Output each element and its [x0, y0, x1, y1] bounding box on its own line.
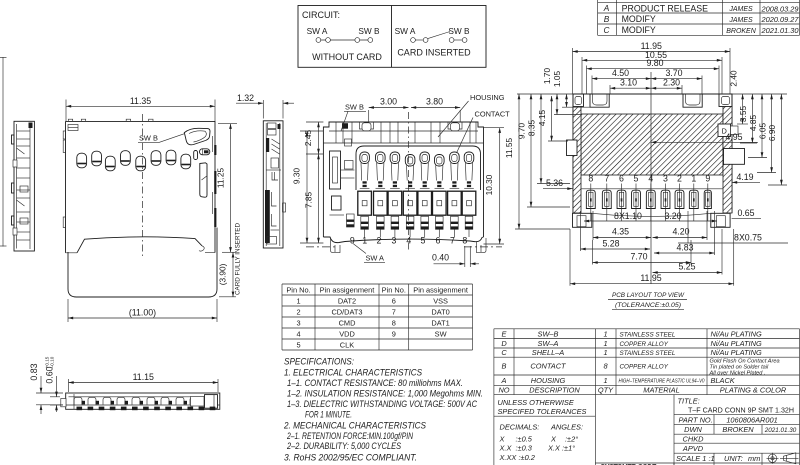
svg-text:4.19: 4.19 — [736, 172, 753, 182]
svg-text:2021.01.30: 2021.01.30 — [761, 26, 800, 35]
label HOUSING with leader — [438, 93, 505, 137]
svg-text:2: 2 — [377, 236, 382, 246]
dimension 5.28 pcb — [580, 211, 582, 251]
svg-text:A: A — [603, 3, 610, 13]
svg-text:CHKD: CHKD — [683, 434, 705, 443]
pcb top corner tab right — [719, 94, 732, 107]
title block frame — [595, 395, 799, 465]
revision row B MODIFY — [604, 14, 800, 24]
svg-text:1.32: 1.32 — [237, 93, 254, 103]
materials row E SW&#8211;B — [502, 329, 762, 338]
svg-text:4: 4 — [296, 329, 300, 338]
svg-text:T–F CARD CONN 9P SMT 1.32: T–F CARD CONN 9P SMT 1.32H — [688, 406, 794, 415]
svg-text:FOR 1 MINUTE.: FOR 1 MINUTE. — [305, 410, 352, 420]
pin table row 1 — [296, 296, 448, 305]
svg-text:PRODUCT RELEASE: PRODUCT RELEASE — [622, 3, 708, 13]
dimension 1.05 pcb left — [566, 94, 568, 107]
tolerance block frame — [494, 395, 674, 465]
far-left side view internal details — [13, 131, 30, 240]
cut-off extension line at image left edge — [0, 57, 7, 247]
dimension 3.10 pcb — [609, 85, 611, 94]
svg-text:CARD FULLY INSERTED: CARD FULLY INSERTED — [235, 223, 242, 296]
svg-text:NO: NO — [498, 385, 509, 394]
svg-text:4: 4 — [648, 174, 653, 184]
svg-text:B: B — [604, 14, 610, 24]
switch contact pin 9 details left side — [330, 139, 355, 227]
materials row D SW&#8211;A — [501, 339, 762, 348]
seating plane dash-dot line — [306, 246, 336, 248]
svg-text:SPECIFED TOLERANCES: SPECIFED TOLERANCES — [498, 407, 587, 416]
dimension (11.00) card width — [68, 299, 217, 322]
svg-text:8X0.75: 8X0.75 — [734, 233, 762, 243]
dimension 11.55 pcb left — [518, 94, 520, 229]
svg-text:D: D — [501, 339, 507, 348]
side view contact bumps — [74, 397, 201, 404]
svg-text:CMD: CMD — [339, 318, 356, 327]
svg-text:3.80: 3.80 — [426, 97, 443, 107]
svg-text:6: 6 — [392, 296, 396, 305]
contact fingers pins 1-8 — [360, 152, 474, 188]
switch contacts closed (without card) — [316, 38, 373, 43]
materials table grid — [494, 329, 800, 395]
svg-text:SCALE 1 :1: SCALE 1 :1 — [676, 454, 715, 463]
dimension 4.50 pcb — [591, 76, 593, 95]
svg-text:7.85: 7.85 — [304, 192, 314, 209]
svg-text:DWN: DWN — [684, 425, 702, 434]
svg-text:STAINLESS STEEL: STAINLESS STEEL — [620, 350, 676, 357]
dimension 11.95 pcb bottom — [570, 229, 734, 286]
left view centerline dashed — [142, 114, 144, 258]
circuit diagram box — [298, 6, 486, 68]
svg-text:7: 7 — [392, 307, 396, 316]
far-left side view top notch — [29, 123, 33, 129]
svg-text:Pin assigenment: Pin assigenment — [413, 285, 468, 294]
pcb right side tab — [724, 149, 745, 165]
svg-text:6.90: 6.90 — [767, 125, 777, 142]
dimension 4.83 pcb — [714, 211, 716, 255]
svg-text:DAT1: DAT1 — [431, 318, 449, 327]
svg-text:3: 3 — [663, 174, 668, 184]
svg-text:PCB LAYOUT TOP VIEW: PCB LAYOUT TOP VIEW — [612, 292, 685, 299]
pin table header row — [286, 285, 468, 294]
dimension 2.45 middle view — [306, 122, 323, 154]
dimension 5.36 pcb — [543, 178, 573, 189]
svg-text:C: C — [501, 348, 507, 357]
svg-text:ANGLES:: ANGLES: — [550, 423, 583, 432]
dimension 11.95 pcb top — [573, 48, 731, 94]
svg-text:2. MECHANICAL CHARACTERISTIC: 2. MECHANICAL CHARACTERISTICS — [283, 421, 426, 431]
svg-text:HOUSING: HOUSING — [531, 376, 566, 385]
middle view contact cradle rounded frame — [356, 146, 481, 190]
svg-text:B: B — [502, 362, 507, 371]
side view right end details — [191, 395, 218, 409]
svg-text:11.15: 11.15 — [133, 372, 154, 382]
svg-text:E: E — [502, 329, 507, 338]
dimension 11.15 side view — [69, 379, 219, 392]
middle view top band dividers — [323, 123, 483, 144]
dimension 0.83 side view — [29, 363, 63, 414]
svg-text:STAINLESS STEEL: STAINLESS STEEL — [620, 331, 676, 338]
svg-text:7.70: 7.70 — [630, 252, 647, 262]
svg-text:4.35: 4.35 — [612, 227, 629, 237]
dimension 7.70 pcb — [593, 240, 692, 265]
svg-text:4.95: 4.95 — [725, 132, 742, 142]
svg-text:CLK: CLK — [340, 340, 354, 349]
dimension 0.40 middle view — [432, 246, 479, 267]
svg-text:PLATING & COLOR: PLATING & COLOR — [720, 385, 787, 394]
pcb top corner tab left — [573, 94, 584, 107]
svg-text:4.15: 4.15 — [537, 110, 547, 127]
dimension 4.95 pcb — [651, 132, 758, 142]
svg-text:CD/DAT3: CD/DAT3 — [331, 307, 362, 316]
narrow side view outline — [263, 121, 283, 248]
pin table row 3 — [296, 318, 449, 327]
svg-text:DAT2: DAT2 — [338, 296, 356, 305]
pcb hatched shield area — [573, 107, 732, 214]
svg-text:PART NO.: PART NO. — [679, 416, 713, 425]
dimension 4.20 pcb — [706, 211, 708, 240]
third angle projection symbol cone — [780, 453, 799, 464]
svg-text:9.30: 9.30 — [292, 168, 302, 185]
svg-text:HOUSING: HOUSING — [470, 93, 505, 102]
third angle projection symbol circle — [767, 453, 779, 464]
svg-text:CONTACT: CONTACT — [475, 110, 511, 119]
svg-text:SW A: SW A — [307, 26, 328, 36]
svg-text:3.00: 3.00 — [380, 97, 397, 107]
svg-text:TITLE:: TITLE: — [678, 397, 700, 406]
svg-text:BLACK: BLACK — [711, 376, 736, 385]
SW B switch mechanism left view — [184, 128, 210, 145]
materials row A HOUSING — [501, 376, 736, 385]
left view top edge spring notches — [68, 119, 153, 121]
svg-text:SW: SW — [435, 329, 447, 338]
dimension 4.35 pcb — [592, 211, 594, 240]
left view small slot near pin 9 — [194, 151, 198, 160]
svg-text:8: 8 — [588, 174, 593, 184]
svg-text:2: 2 — [677, 174, 682, 184]
solder tail bars pins 1-8 — [361, 216, 473, 237]
pcb solder pads 1-9 — [586, 184, 711, 222]
svg-text:2008.03.29: 2008.03.29 — [761, 4, 799, 13]
svg-text:CONTACT: CONTACT — [530, 362, 566, 371]
dimension 8X0.75 pcb — [678, 211, 788, 243]
left view left edge tabs — [63, 140, 65, 228]
left view 8 oval contact openings — [77, 150, 191, 171]
svg-text:1: 1 — [603, 339, 607, 348]
svg-text:DECIMALS:: DECIMALS: — [500, 423, 540, 432]
dimension 10.30 middle view — [484, 128, 505, 244]
svg-text:X.X: X.X — [499, 444, 513, 453]
svg-text:3.10: 3.10 — [620, 78, 637, 88]
svg-text:–0.10: –0.10 — [50, 356, 55, 368]
svg-text:9: 9 — [392, 329, 396, 338]
svg-text:WITHOUT CARD: WITHOUT CARD — [312, 52, 382, 62]
svg-text:BROKEN: BROKEN — [726, 28, 757, 35]
svg-text:A: A — [501, 376, 507, 385]
dimension 2.40 pcb right — [742, 94, 744, 124]
dimension 6.05 pcb right — [771, 94, 773, 173]
svg-text:MODIFY: MODIFY — [622, 25, 656, 35]
svg-text:X.XX: X.XX — [499, 453, 518, 462]
pin table row 5 — [296, 340, 354, 349]
svg-text:7: 7 — [450, 236, 455, 246]
svg-text:5.36: 5.36 — [546, 178, 563, 188]
label CONTACT with leader — [457, 110, 511, 154]
svg-text:1–2. INSULATION RESISTANCE:: 1–2. INSULATION RESISTANCE: 1,000 Megohm… — [287, 389, 483, 399]
svg-text:6.05: 6.05 — [757, 123, 767, 140]
svg-text:MATERIAL: MATERIAL — [643, 385, 679, 394]
pcb top cutout left — [590, 94, 609, 107]
svg-text:APVD: APVD — [682, 444, 704, 453]
dimension 3.00 middle view — [368, 110, 370, 122]
dimension 8.35 pcb left — [540, 94, 542, 184]
svg-text:JAMES: JAMES — [728, 17, 753, 24]
left view vertical lever strip — [200, 163, 207, 197]
narrow side view internal details — [265, 123, 286, 244]
dimension 9.30 middle view — [300, 131, 323, 243]
svg-text:QTY: QTY — [598, 385, 614, 394]
pcb top edge extension lines — [517, 93, 787, 95]
svg-text:X.X :±1°: X.X :±1° — [547, 444, 575, 453]
svg-text:4: 4 — [406, 236, 411, 246]
svg-text:1: 1 — [362, 236, 367, 246]
svg-text:11.35: 11.35 — [130, 96, 151, 106]
pin numbers middle view — [350, 236, 468, 246]
dimension 8X1.10 and 3.20 pcb — [584, 211, 717, 221]
svg-text:Pin assigenment: Pin assigenment — [320, 285, 375, 294]
svg-text:Pin No.: Pin No. — [382, 285, 406, 294]
dimension 3.80 middle view — [459, 110, 461, 122]
dimension 10.55 pcb — [582, 57, 722, 94]
dimension 9.70 pcb left — [530, 94, 532, 207]
svg-text:9: 9 — [705, 174, 710, 184]
pcb right wing pad — [711, 213, 730, 227]
dimension 0.65 pcb right — [732, 208, 761, 218]
dimension 4.85 pcb right — [761, 94, 763, 158]
svg-text::±0.2: :±0.2 — [519, 453, 535, 462]
svg-text:(3.90): (3.90) — [217, 263, 227, 285]
svg-text::±0.3: :±0.3 — [516, 444, 533, 453]
svg-text:1: 1 — [691, 174, 696, 184]
svg-text:UNIT:: UNIT: — [724, 454, 743, 463]
svg-text:6: 6 — [619, 174, 624, 184]
dimension 5.25 pcb — [721, 229, 723, 275]
tolerance block text — [498, 398, 587, 462]
middle view SW-B dark mark top band — [342, 123, 348, 129]
svg-text:0.83: 0.83 — [29, 363, 39, 380]
memory card outline fully inserted — [68, 228, 217, 298]
svg-text:8X1.10: 8X1.10 — [614, 211, 642, 221]
pcb detail D tab right side — [718, 124, 738, 137]
svg-text:SW B: SW B — [139, 134, 158, 143]
svg-text:5: 5 — [296, 340, 300, 349]
dimension 11.25 right of left view — [218, 123, 237, 125]
svg-text:DAT0: DAT0 — [431, 307, 449, 316]
svg-text:1–1. CONTACT RESISTANCE: 80: 1–1. CONTACT RESISTANCE: 80 milliohms MA… — [287, 378, 463, 388]
svg-text:UNLESS OTHERWISE: UNLESS OTHERWISE — [498, 398, 574, 407]
pcb centerline — [650, 72, 652, 284]
side view left end tab — [61, 399, 66, 407]
svg-text:VDD: VDD — [339, 329, 355, 338]
svg-text:3. RoHS 2002/95/EC COMPLIAN: 3. RoHS 2002/95/EC COMPLIANT. — [284, 453, 417, 463]
label SW B middle view with leader — [341, 103, 366, 132]
revision row C MODIFY — [604, 25, 800, 35]
svg-text:SW B: SW B — [358, 26, 380, 36]
svg-text:10.30: 10.30 — [484, 174, 494, 195]
svg-text:SW B: SW B — [448, 26, 470, 36]
svg-text:9.80: 9.80 — [646, 58, 663, 68]
revision row A PRODUCT RELEASE — [603, 3, 799, 13]
svg-text:1.05: 1.05 — [552, 71, 562, 88]
svg-text:Ni/Au PLATING: Ni/Au PLATING — [711, 348, 762, 357]
svg-text:7: 7 — [604, 174, 609, 184]
svg-text:11.95: 11.95 — [640, 273, 661, 283]
dimension (3.90) card protrusion — [219, 252, 236, 296]
dimension 7.85 middle view — [318, 154, 320, 243]
svg-text::±0.5: :±0.5 — [516, 435, 533, 444]
svg-text:1. ELECTRICAL CHARACTERISTIC: 1. ELECTRICAL CHARACTERISTICS — [284, 368, 422, 378]
pin assignment table grid — [282, 284, 473, 350]
svg-text:3: 3 — [296, 318, 300, 327]
svg-text:0.65: 0.65 — [737, 208, 754, 218]
contact base blocks pins 1-8 — [358, 191, 476, 215]
svg-text:(11.00): (11.00) — [129, 308, 156, 318]
svg-text:2–1. RETENTION FORCE:MIN.100: 2–1. RETENTION FORCE:MIN.100gf/PIN — [286, 431, 413, 441]
title block PART NO row — [679, 416, 778, 425]
dimension 3.55 pcb right — [751, 94, 753, 143]
svg-text:BROKEN: BROKEN — [722, 425, 754, 434]
svg-text:11.55: 11.55 — [504, 138, 514, 159]
svg-text:4.85: 4.85 — [748, 115, 758, 132]
svg-text:5: 5 — [634, 174, 639, 184]
svg-text:SHELL–A: SHELL–A — [532, 348, 565, 357]
left view shell outline — [66, 121, 216, 252]
svg-text:2.45: 2.45 — [303, 130, 313, 147]
svg-text:5.25: 5.25 — [678, 262, 695, 272]
svg-text:CIRCUIT:: CIRCUIT: — [302, 10, 340, 20]
svg-text:8: 8 — [462, 236, 467, 246]
svg-text:SW B: SW B — [345, 103, 364, 112]
dimension 1.70 pcb left — [556, 94, 558, 115]
svg-text:(TOLERANCE:±0.05): (TOLERANCE:±0.05) — [615, 302, 681, 309]
pcb bottom curved housing edge — [592, 213, 711, 216]
dimension 11.35 top of left view — [66, 100, 215, 122]
SW B label left view — [138, 134, 184, 143]
svg-text:4.50: 4.50 — [612, 68, 629, 78]
svg-text::±2°: :±2° — [565, 435, 578, 444]
bottom partial row — [600, 463, 762, 465]
dimension 3.70 pcb — [701, 76, 703, 95]
side view solder feet black marks — [77, 407, 216, 411]
svg-text:SW–B: SW–B — [538, 329, 559, 338]
dimension 4.19 pcb — [732, 172, 760, 182]
svg-text:CARD INSERTED: CARD INSERTED — [397, 48, 471, 58]
svg-text:3.55: 3.55 — [738, 106, 748, 123]
left view right edge rail details — [213, 136, 217, 227]
svg-text:DESCRIPTION: DESCRIPTION — [529, 385, 580, 394]
svg-text:C: C — [604, 25, 611, 35]
dimension 0.60 side view with tolerance — [45, 356, 64, 412]
left view housing front curved edge — [66, 237, 216, 253]
svg-text:9.70: 9.70 — [516, 123, 526, 140]
svg-text:3.70: 3.70 — [665, 68, 682, 78]
svg-text:2: 2 — [296, 307, 300, 316]
middle view housing outline — [323, 122, 483, 237]
svg-text:2020.09.27: 2020.09.27 — [761, 15, 800, 24]
materials row B CONTACT — [502, 359, 780, 377]
pcb right dim extension lines — [737, 124, 787, 185]
svg-text:mm: mm — [748, 454, 760, 463]
svg-text:1–3. DIELECTRIC WITHSTANDING: 1–3. DIELECTRIC WITHSTANDING VOLTAGE: 50… — [287, 399, 477, 409]
caption PCB LAYOUT TOP VIEW — [608, 292, 687, 309]
svg-text:JAMES: JAMES — [728, 6, 753, 13]
svg-text:COPPER ALLOY: COPPER ALLOY — [620, 341, 669, 348]
pcb left dim extension lines — [515, 107, 590, 229]
svg-text:1: 1 — [603, 376, 607, 385]
title block SCALE row — [676, 454, 760, 463]
svg-text:COPPER ALLOY: COPPER ALLOY — [620, 364, 669, 371]
dimension 9.80 pcb — [587, 66, 720, 95]
svg-text:6: 6 — [436, 236, 441, 246]
svg-text:5.28: 5.28 — [602, 239, 619, 249]
pin table row 4 — [296, 329, 446, 338]
svg-text:8: 8 — [392, 318, 396, 327]
far-left side view outline — [14, 121, 34, 251]
svg-text:HIGH–TEMPERATURE PLASTIC UL94–: HIGH–TEMPERATURE PLASTIC UL94–V0 — [619, 379, 706, 385]
dimension 6.90 pcb right — [780, 94, 782, 185]
svg-text:1: 1 — [603, 329, 607, 338]
svg-text:SW–A: SW–A — [538, 339, 559, 348]
dimension 4.15 pcb left — [551, 96, 553, 141]
middle view top tabs — [360, 122, 463, 131]
pcb pads region top edge line — [581, 188, 723, 190]
dimension 2.30 pcb — [681, 85, 683, 94]
svg-text:2–2. DURABILITY: 5,000 CYCL: 2–2. DURABILITY: 5,000 CYCLES — [286, 441, 401, 451]
revision table grid — [598, 0, 800, 35]
svg-text:2.40: 2.40 — [728, 70, 738, 87]
far-left side view left tabs — [12, 135, 15, 225]
materials row C SHELL&#8211;A — [501, 348, 762, 357]
pcb top cutout right — [683, 94, 702, 107]
svg-text:5: 5 — [421, 236, 426, 246]
left view top-left inner details — [63, 125, 78, 140]
title block TITLE text — [678, 397, 795, 415]
svg-text:3: 3 — [392, 236, 397, 246]
materials header row — [498, 385, 786, 394]
specifications text block — [283, 357, 483, 463]
svg-text:4.20: 4.20 — [672, 227, 689, 237]
svg-text:1: 1 — [296, 296, 300, 305]
pcb left wing pad — [573, 213, 592, 227]
side view bottom outline — [66, 393, 220, 409]
svg-text:1: 1 — [603, 348, 607, 357]
title block DWN row — [684, 425, 797, 434]
svg-text:Ni/Au PLATING: Ni/Au PLATING — [711, 329, 762, 338]
svg-text:3.20: 3.20 — [664, 211, 681, 221]
svg-text:SPECIFICATIONS:: SPECIFICATIONS: — [284, 357, 354, 367]
svg-text:SW A: SW A — [395, 26, 416, 36]
dimension 1.32 connector height — [236, 93, 294, 119]
pcb body outline — [573, 94, 732, 213]
svg-text:VSS: VSS — [433, 296, 448, 305]
left view small horizontal oval detail — [200, 149, 210, 155]
pin table row 2 — [296, 307, 449, 316]
middle view centerline dashed — [408, 112, 410, 250]
svg-text:Ni/Au PLATING: Ni/Au PLATING — [711, 339, 762, 348]
pcb left side tab — [567, 140, 578, 156]
svg-text:MODIFY: MODIFY — [622, 14, 656, 24]
pcb pin numbers row — [588, 174, 710, 184]
